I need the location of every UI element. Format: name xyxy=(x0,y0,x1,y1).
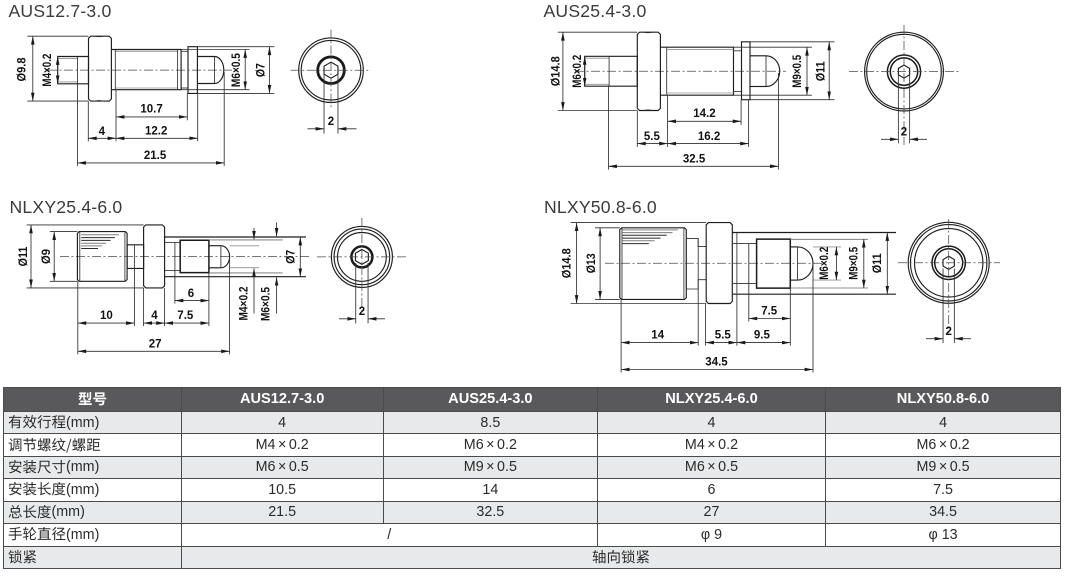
svg-text:NLXY25.4-6.0: NLXY25.4-6.0 xyxy=(10,197,123,217)
svg-text:14: 14 xyxy=(651,329,664,341)
svg-text:Ø7: Ø7 xyxy=(286,250,298,264)
svg-text:4: 4 xyxy=(151,310,158,322)
svg-text:2: 2 xyxy=(359,306,365,318)
svg-text:12.2: 12.2 xyxy=(145,126,167,138)
svg-text:27: 27 xyxy=(149,338,162,350)
svg-text:4: 4 xyxy=(99,126,106,138)
svg-text:21.5: 21.5 xyxy=(144,150,167,162)
svg-text:9.5: 9.5 xyxy=(754,329,771,341)
svg-text:2: 2 xyxy=(901,127,907,139)
svg-text:14.2: 14.2 xyxy=(693,108,715,120)
svg-text:M6×0.5: M6×0.5 xyxy=(231,53,243,88)
svg-text:AUS25.4-3.0: AUS25.4-3.0 xyxy=(544,1,647,21)
svg-text:M4×0.2: M4×0.2 xyxy=(238,287,250,321)
svg-text:M6×0.2: M6×0.2 xyxy=(819,247,831,280)
svg-text:M4×0.2: M4×0.2 xyxy=(42,54,54,87)
svg-text:5.5: 5.5 xyxy=(715,329,732,341)
svg-text:6: 6 xyxy=(188,288,194,300)
svg-text:10: 10 xyxy=(100,310,113,322)
svg-text:2: 2 xyxy=(945,326,951,338)
svg-text:2: 2 xyxy=(328,116,334,128)
svg-text:M6×0.2: M6×0.2 xyxy=(572,55,584,88)
svg-text:7.5: 7.5 xyxy=(177,310,194,322)
svg-text:32.5: 32.5 xyxy=(683,154,706,166)
svg-text:M9×0.5: M9×0.5 xyxy=(849,246,861,280)
svg-text:NLXY50.8-6.0: NLXY50.8-6.0 xyxy=(544,197,657,217)
svg-text:10.7: 10.7 xyxy=(140,103,162,115)
svg-text:Ø11: Ø11 xyxy=(18,246,30,267)
svg-text:Ø14.8: Ø14.8 xyxy=(550,56,562,87)
svg-text:34.5: 34.5 xyxy=(705,356,728,368)
svg-text:Ø9.8: Ø9.8 xyxy=(17,57,29,82)
svg-text:Ø9: Ø9 xyxy=(41,249,53,264)
svg-text:Ø14.8: Ø14.8 xyxy=(561,248,573,279)
svg-text:Ø11: Ø11 xyxy=(816,61,828,82)
svg-text:AUS12.7-3.0: AUS12.7-3.0 xyxy=(9,1,112,21)
svg-text:Ø11: Ø11 xyxy=(872,253,884,274)
svg-text:Ø7: Ø7 xyxy=(255,63,267,77)
svg-text:16.2: 16.2 xyxy=(698,131,720,143)
svg-text:Ø13: Ø13 xyxy=(586,253,598,273)
svg-text:M9×0.5: M9×0.5 xyxy=(792,54,804,88)
svg-text:7.5: 7.5 xyxy=(761,306,778,318)
svg-text:M6×0.5: M6×0.5 xyxy=(260,286,272,321)
svg-text:5.5: 5.5 xyxy=(644,131,661,143)
